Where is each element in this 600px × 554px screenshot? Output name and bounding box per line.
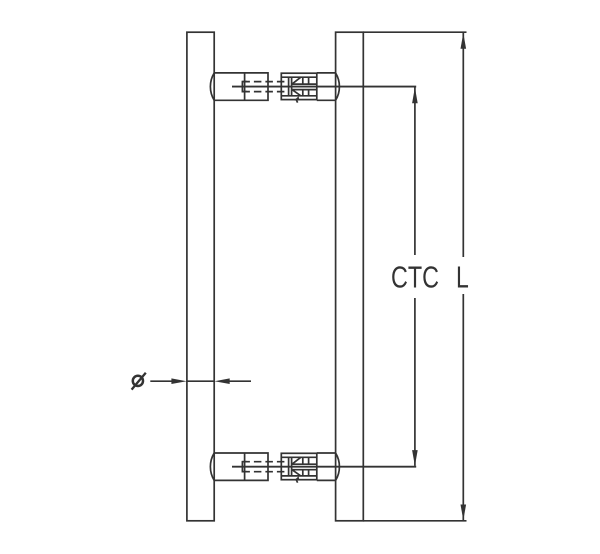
CTC dimension line upper segment (414, 87, 416, 255)
svg-text:L: L (456, 259, 469, 294)
bottom fastener assembly (210, 453, 416, 483)
diameter right arrowhead (215, 378, 230, 384)
diameter dimension left tail line (150, 380, 173, 382)
L dimension line upper segment (462, 33, 464, 257)
diameter left arrowhead (171, 378, 186, 384)
L top extension line (363, 31, 466, 33)
CTC dimension line lower segment (414, 298, 416, 466)
diameter symbol slash (132, 373, 146, 390)
L top arrowhead (461, 33, 467, 49)
svg-text:CTC: CTC (391, 259, 439, 294)
L dimension line lower segment (462, 294, 464, 520)
L bottom extension line (363, 520, 466, 522)
L bottom arrowhead (461, 505, 467, 521)
CTC top arrowhead (412, 87, 418, 103)
CTC bottom arrowhead (412, 450, 418, 466)
top fastener assembly (210, 73, 416, 103)
diameter dimension right tail line (228, 380, 251, 382)
diameter dimension crossing line (187, 380, 214, 382)
diameter symbol circle (133, 376, 143, 386)
right handle bar (336, 32, 364, 521)
left handle bar (187, 32, 214, 521)
